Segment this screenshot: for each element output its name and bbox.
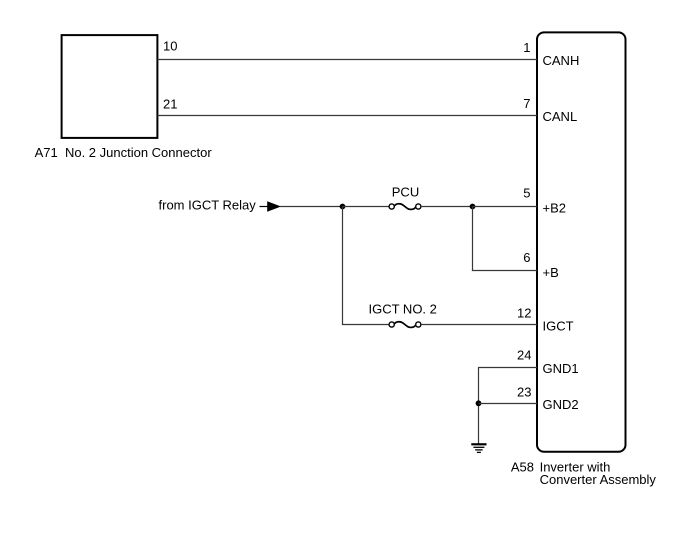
svg-text:21: 21 bbox=[163, 97, 177, 112]
connector A71 (No. 2 Junction Connector) bbox=[62, 35, 158, 138]
wire node A down to IGCT row bbox=[342, 207, 344, 326]
svg-text:IGCT NO. 2: IGCT NO. 2 bbox=[369, 302, 437, 317]
svg-text:23: 23 bbox=[517, 385, 531, 400]
wire node B down to +B row bbox=[472, 207, 474, 272]
svg-text:7: 7 bbox=[523, 96, 530, 111]
svg-text:IGCT: IGCT bbox=[543, 318, 574, 333]
wire node B to A58 pin 5 bbox=[473, 206, 538, 208]
fuse PCU bbox=[389, 204, 421, 210]
node B junction dot bbox=[470, 204, 476, 210]
svg-text:5: 5 bbox=[523, 186, 530, 201]
arrow from IGCT Relay bbox=[260, 206, 268, 208]
svg-text:Converter Assembly: Converter Assembly bbox=[540, 472, 657, 487]
node A junction dot bbox=[340, 204, 346, 210]
svg-text:+B: +B bbox=[543, 265, 559, 280]
svg-text:A71 No. 2 Junction Connector: A71 No. 2 Junction Connector bbox=[35, 145, 213, 160]
wire node A to fuse PCU bbox=[343, 206, 390, 208]
wire from arrow to node A bbox=[280, 206, 342, 208]
wire fuse IGCT NO. 2 to A58 pin 12 bbox=[421, 324, 537, 326]
svg-text:+B2: +B2 bbox=[543, 201, 567, 216]
wire to A58 pin 6 bbox=[472, 270, 537, 272]
wire fuse PCU to node B bbox=[421, 206, 473, 208]
wire ground branch vertical bbox=[478, 367, 480, 444]
fuse IGCT NO. 2 bbox=[389, 322, 421, 328]
svg-text:from IGCT Relay: from IGCT Relay bbox=[159, 198, 257, 213]
svg-text:PCU: PCU bbox=[392, 185, 419, 200]
node C junction dot bbox=[476, 400, 482, 406]
ground bbox=[471, 444, 486, 452]
connector A58 (Inverter with Converter Assembly) bbox=[537, 32, 626, 451]
wire to fuse IGCT NO. 2 bbox=[342, 324, 389, 326]
svg-text:24: 24 bbox=[517, 348, 531, 363]
svg-text:1: 1 bbox=[523, 40, 530, 55]
wire CANH: A71 pin 10 to A58 pin 1 bbox=[158, 59, 538, 61]
wire CANL: A71 pin 21 to A58 pin 7 bbox=[158, 115, 538, 117]
wire A58 pin 24 to ground branch bbox=[479, 367, 537, 369]
svg-text:6: 6 bbox=[523, 250, 530, 265]
svg-text:GND2: GND2 bbox=[543, 397, 579, 412]
svg-text:CANH: CANH bbox=[543, 53, 580, 68]
svg-text:GND1: GND1 bbox=[543, 361, 579, 376]
wire node C to A58 pin 23 bbox=[479, 403, 538, 405]
svg-text:A58: A58 bbox=[511, 460, 534, 475]
svg-text:10: 10 bbox=[163, 39, 177, 54]
svg-text:CANL: CANL bbox=[543, 109, 578, 124]
svg-text:12: 12 bbox=[517, 306, 531, 321]
